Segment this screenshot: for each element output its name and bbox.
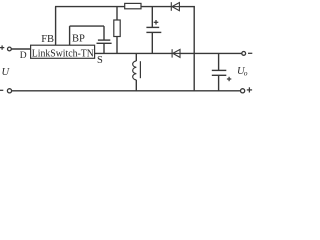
capacitor C1 (BP bypass): [97, 26, 112, 53]
svg-text:D: D: [20, 51, 27, 61]
wire bottom rail: [12, 90, 241, 92]
capacitor C3 (output electrolytic): [212, 53, 227, 90]
wire FB pin vertical: [55, 7, 57, 46]
wire top rail right segment (VD1 to right vertical): [179, 6, 195, 8]
resistor R2 (vertical, feedback divider): [116, 7, 118, 20]
inductor L1 lead bottom: [135, 80, 137, 91]
wire right vertical (top rail down to bottom rail): [193, 7, 195, 91]
minus sign input: [0, 89, 3, 91]
IC U1 LinkSwitch-TN body: [31, 45, 95, 58]
inductor L1 lead top: [135, 53, 137, 61]
input terminal - (bottom left): [7, 89, 11, 93]
minus sign output: [248, 52, 252, 54]
svg-text:LinkSwitch-TN: LinkSwitch-TN: [32, 48, 94, 60]
diode VD2 (freewheeling, cathode left): [172, 49, 180, 57]
wire BP horizontal to C1: [70, 25, 104, 27]
capacitor C2 (feedback electrolytic): [146, 7, 161, 54]
wire D pin (input + to IC): [11, 48, 30, 50]
svg-text:FB: FB: [41, 34, 54, 45]
svg-text:S: S: [97, 55, 103, 66]
input terminal + (top left): [7, 47, 11, 51]
diode VD1 (top, cathode left): [171, 2, 179, 11]
svg-text:o: o: [244, 69, 248, 78]
inductor L1 core bar: [139, 61, 141, 78]
inductor L1 coil: [133, 61, 137, 80]
wire top rail left segment (FB node to R1): [55, 6, 125, 8]
plus sign output: [247, 87, 252, 92]
wire output rail (VD2 to output - terminal): [180, 52, 242, 54]
output terminal - (top right): [242, 52, 246, 56]
wire S rail (S pin to diode VD2): [95, 52, 173, 54]
plus sign of C2: [154, 20, 159, 25]
plus sign input: [0, 45, 4, 49]
output terminal + (bottom right): [241, 89, 245, 93]
svg-text:BP: BP: [72, 34, 85, 45]
plus sign of C3: [227, 77, 231, 81]
wire top rail middle segment (R1 to diode VD1): [141, 6, 171, 8]
wire BP pin vertical: [69, 26, 71, 45]
resistor R1 (horizontal, feedback): [125, 3, 141, 8]
